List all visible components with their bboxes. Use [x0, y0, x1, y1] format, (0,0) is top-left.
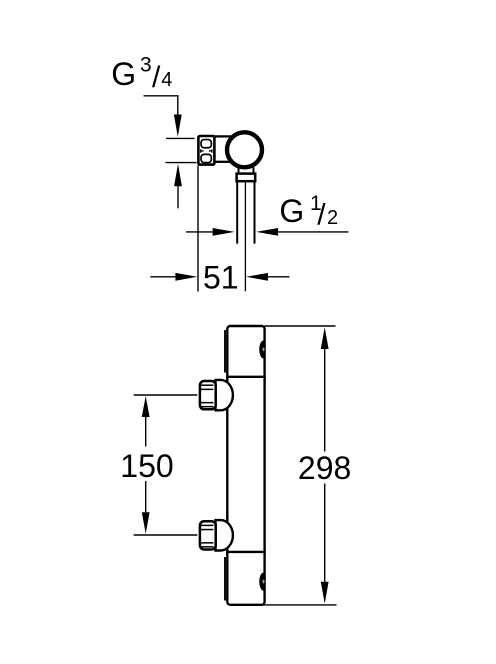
extension line 150 bottom: [134, 534, 198, 536]
298 dimension line and arrows: [321, 327, 329, 603]
lower connection boss: [216, 520, 233, 550]
top cap divider: [226, 376, 266, 378]
svg-text:/: /: [152, 61, 161, 94]
svg-text:3: 3: [140, 54, 152, 77]
leader arrowhead down: [174, 115, 182, 138]
thermostat cartridge circle: [227, 132, 262, 167]
shower bar body: [227, 326, 264, 605]
svg-text:4: 4: [161, 69, 172, 91]
51 dimension arrows: [150, 273, 289, 281]
top cap left lip: [224, 330, 226, 372]
svg-text:/: /: [317, 198, 326, 231]
bottom cap divider: [226, 551, 266, 553]
label G 3/4: [111, 54, 172, 94]
label G 1/2: [279, 192, 338, 232]
collar ring: [237, 174, 256, 182]
svg-text:150: 150: [120, 448, 173, 484]
pipe center line: [244, 183, 246, 292]
outlet neck below circle: [239, 167, 254, 174]
lower union nut front view: [200, 521, 216, 549]
extension line 150 top: [134, 394, 198, 396]
svg-text:2: 2: [327, 207, 338, 229]
extension line 51 left: [197, 166, 199, 292]
upper union nut front view: [200, 381, 216, 409]
G 1/2 dimension arrows: [186, 228, 349, 236]
svg-text:G: G: [279, 193, 304, 229]
top outlet ellipse on right edge: [259, 341, 264, 359]
upper connection boss: [216, 380, 233, 410]
extension line 298 bottom: [264, 604, 337, 606]
extension line nut bottom: [166, 162, 197, 164]
svg-text:51: 51: [203, 259, 239, 295]
150 dimension line and arrows: [142, 396, 150, 534]
svg-text:G: G: [111, 56, 136, 92]
valve body rect (side view): [214, 136, 243, 161]
bottom cap left lip: [224, 557, 226, 601]
bottom outlet ellipse on right edge: [259, 573, 264, 591]
union nut G3/4 side view: [198, 136, 214, 165]
svg-text:298: 298: [298, 450, 351, 486]
extension line nut top: [166, 137, 195, 139]
arrow up at nut bottom: [174, 164, 182, 209]
pipe outlet: [237, 181, 254, 243]
extension line 298 top: [265, 325, 336, 327]
leader line G3/4: [144, 96, 178, 115]
